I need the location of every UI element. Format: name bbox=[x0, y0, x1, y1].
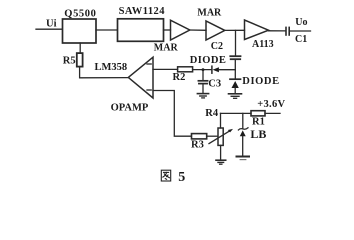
wire rail to R4 top bbox=[220, 113, 222, 128]
wire Q5500 to SAW1124 bbox=[96, 29, 117, 31]
svg-text:LM358: LM358 bbox=[95, 62, 128, 73]
svg-text:R1: R1 bbox=[252, 117, 265, 128]
wire D2 to ground bbox=[234, 88, 236, 94]
svg-text:R3: R3 bbox=[191, 140, 204, 151]
wire R4 to ground bbox=[220, 145, 222, 160]
resistor R1 bbox=[251, 111, 265, 116]
capacitor C1 bbox=[285, 27, 287, 35]
amplifier MAR1 bbox=[171, 20, 190, 40]
wire R1 to +3.6V terminal bbox=[265, 112, 280, 114]
svg-text:R2: R2 bbox=[173, 72, 186, 83]
svg-text:OPAMP: OPAMP bbox=[111, 102, 149, 113]
svg-text:Uo: Uo bbox=[295, 17, 307, 28]
svg-text:A113: A113 bbox=[252, 39, 274, 50]
wire op-amp non-inverting input to R3 bbox=[153, 91, 191, 137]
ground for R4 bbox=[216, 159, 226, 161]
wire C3 to ground bbox=[202, 84, 204, 93]
svg-text:5: 5 bbox=[178, 170, 185, 185]
resistor R3 bbox=[192, 134, 207, 139]
op-amp inverting tick bbox=[147, 63, 151, 65]
resistor R5 bbox=[77, 53, 83, 67]
wire C2 to detector node bbox=[234, 60, 236, 79]
wire +3.6V rail bbox=[221, 112, 252, 114]
svg-text:C2: C2 bbox=[211, 41, 223, 52]
potentiometer R4 body bbox=[218, 128, 223, 145]
op-amp non-inverting tick bbox=[147, 89, 151, 91]
wire output Uo bbox=[290, 30, 311, 32]
svg-text:MAR: MAR bbox=[197, 8, 222, 19]
wire MAR1 to MAR2 bbox=[190, 29, 206, 31]
op-amp U1 LM358 bbox=[128, 57, 153, 98]
potentiometer R4 wiper arrow bbox=[209, 130, 231, 143]
zener LB cathode bar bbox=[238, 128, 248, 130]
wire op-amp output to R5 bbox=[80, 77, 129, 79]
wire junction down to C2 branch bbox=[235, 30, 237, 55]
svg-text:LB: LB bbox=[250, 127, 266, 141]
wire SAW1124 to MAR1 bbox=[164, 29, 171, 31]
wire R3 to R4 wiper bbox=[207, 135, 217, 137]
resistor R2 bbox=[178, 67, 193, 72]
svg-text:C3: C3 bbox=[208, 78, 221, 89]
junction node C3 tap bbox=[202, 68, 205, 71]
wire MAR2 to A113 bbox=[225, 29, 245, 31]
caption figure glyph (CJK tu) bbox=[161, 170, 170, 181]
SAW filter SAW1124 bbox=[118, 19, 164, 42]
diode D1 series bbox=[211, 66, 213, 73]
wire A113 to C1 bbox=[269, 30, 286, 32]
zener LB diode bbox=[240, 130, 246, 136]
capacitor C3 bbox=[198, 80, 207, 82]
wire Ui input bbox=[36, 28, 62, 30]
amplifier MAR2 bbox=[206, 21, 225, 40]
svg-text:Ui: Ui bbox=[46, 19, 57, 30]
zener LB branch wire bbox=[242, 113, 244, 128]
wire op-amp inverting input to R2 bbox=[153, 68, 178, 70]
svg-text:SAW1124: SAW1124 bbox=[119, 6, 166, 17]
ground for C3 bbox=[197, 93, 208, 95]
ground for D2 bbox=[229, 93, 242, 95]
oscillator Q5500 bbox=[63, 19, 97, 43]
diode D2 shunt bbox=[230, 78, 241, 80]
svg-text:Q5500: Q5500 bbox=[64, 8, 96, 19]
wire D1 to branch node bbox=[219, 69, 235, 71]
wire C3 branch bbox=[202, 70, 204, 81]
svg-text:C1: C1 bbox=[295, 34, 307, 45]
svg-text:MAR: MAR bbox=[154, 43, 179, 54]
svg-text:+3.6V: +3.6V bbox=[257, 99, 285, 110]
wire R2 to D1 bbox=[193, 69, 212, 71]
capacitor C2 plates bbox=[230, 55, 240, 57]
ground for LB bbox=[237, 156, 250, 158]
wire Q5500 to R5 bbox=[79, 43, 81, 53]
svg-text:R4: R4 bbox=[205, 108, 219, 119]
svg-text:R5: R5 bbox=[63, 56, 76, 67]
svg-text:DIODE: DIODE bbox=[242, 76, 279, 87]
amplifier U3 A113 bbox=[245, 20, 269, 40]
svg-text:DIODE: DIODE bbox=[190, 55, 226, 66]
